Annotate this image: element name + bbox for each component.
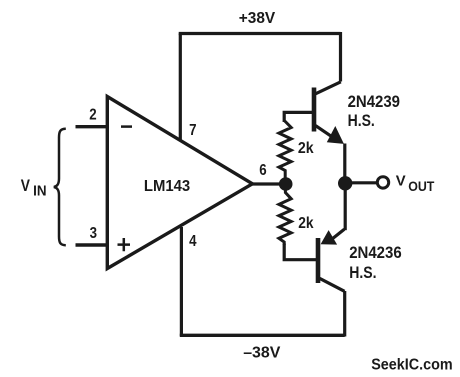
VOUT open terminal [377,177,388,188]
wire pin 7 to +38V rail [179,34,182,141]
resistor R2 2k (lower) [279,190,291,246]
wire Q1 emitter to output node [343,144,346,179]
svg-text:V: V [21,177,30,195]
svg-text:2N4236: 2N4236 [349,244,402,262]
Q2 emitter lead [331,229,345,240]
svg-text:7: 7 [189,122,196,139]
svg-text:+38V: +38V [239,10,276,27]
op-amp inverting input minus sign [121,125,132,128]
op-amp U1 LM143 triangle [107,97,252,269]
input brace [54,129,66,245]
Q1 emitter arrowhead [327,126,344,144]
svg-text:6: 6 [259,162,266,179]
node 6 junction dot [279,177,293,191]
wire output node to VOUT terminal [351,181,378,184]
wire pin 4 to -38V rail [180,227,183,336]
svg-text:H.S.: H.S. [349,264,376,282]
resistor R1 2k (upper) [279,121,291,178]
op-amp non-inverting input plus sign [118,238,131,251]
Q2 collector lead [320,278,345,291]
svg-text:LM143: LM143 [144,178,190,195]
output node junction dot [338,176,352,190]
Q2 base bar [316,238,321,283]
wire R1 top to Q1 base [284,112,312,122]
wire output node to Q2 emitter [344,189,347,230]
svg-text:H.S.: H.S. [348,112,375,130]
wire Q2 collector to -38V rail [343,291,346,337]
Q2 emitter arrowhead [321,230,338,245]
Q1 collector lead [316,82,341,94]
wire +38V rail down to Q1 collector [339,32,342,82]
transistor Q2 2N4236 (PNP, bottom) [318,229,345,291]
svg-text:OUT: OUT [408,178,435,194]
svg-text:2k: 2k [298,215,313,232]
wire -38V bottom rail [180,334,345,337]
wire R2 bottom to Q2 base [284,244,316,260]
svg-text:2k: 2k [298,140,314,157]
wire input pin 2 [76,125,109,128]
svg-text:IN: IN [33,183,46,199]
svg-text:V: V [396,173,406,190]
svg-text:–38V: –38V [243,345,281,362]
Q1 emitter lead [316,126,336,139]
svg-text:2: 2 [89,106,96,123]
svg-text:4: 4 [189,233,196,250]
svg-text:SeekIC.com: SeekIC.com [371,357,453,374]
wire op-amp output to node 6 [252,182,286,185]
transistor Q1 2N4239 (NPN, top) [314,82,344,144]
svg-text:2N4239: 2N4239 [348,93,400,111]
svg-text:3: 3 [90,225,97,242]
wire input pin 3 [76,243,109,246]
Q1 base bar [312,88,317,132]
wire +38V top rail [179,32,341,35]
